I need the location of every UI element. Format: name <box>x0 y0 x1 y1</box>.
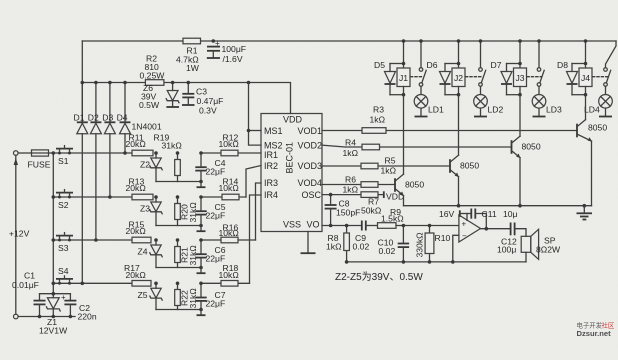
svg-text:/1.6V: /1.6V <box>223 54 243 64</box>
svg-text:20kΩ: 20kΩ <box>126 270 147 280</box>
svg-text:10μ: 10μ <box>503 209 518 219</box>
svg-text:10kΩ: 10kΩ <box>219 139 240 149</box>
terminal bottom left <box>14 314 19 319</box>
svg-text:330kΩ: 330kΩ <box>415 232 425 258</box>
resistor R8 <box>344 226 350 262</box>
transistor Q3 8050 (J3 driver) <box>512 95 521 206</box>
lamp LD1 <box>414 86 428 116</box>
resistor R22 <box>175 283 181 309</box>
relay contact S-J2 <box>466 41 486 86</box>
capacitor C11 <box>471 209 486 229</box>
wire R16 to IR3 <box>256 183 262 240</box>
ground LD1 <box>415 116 428 118</box>
node diode-row junctions <box>123 151 127 155</box>
wire left vertical rail1 to D1 <box>81 41 83 122</box>
node rail1 100uF junction <box>212 39 216 43</box>
node fuse junction <box>52 151 56 155</box>
svg-text:MS1: MS1 <box>264 126 283 136</box>
svg-text:20kΩ: 20kΩ <box>126 226 147 236</box>
svg-text:FUSE: FUSE <box>28 160 51 170</box>
wire emitter bus <box>404 205 592 207</box>
lamp LD4 <box>599 86 613 116</box>
wire J4 bottom <box>572 87 586 95</box>
svg-text:D3: D3 <box>102 113 113 123</box>
capacitor C1 <box>34 294 46 317</box>
svg-text:+: + <box>215 39 220 48</box>
resistor R1 <box>183 38 201 44</box>
svg-text:0.47μF: 0.47μF <box>197 96 224 106</box>
transistor Q4 8050 (J4 driver) <box>577 95 592 206</box>
svg-text:MS2: MS2 <box>264 140 283 150</box>
diode D8 <box>567 64 586 95</box>
resistor R21 <box>175 240 181 268</box>
resistor R10 <box>425 226 434 262</box>
node rail1 branch junctions <box>402 39 406 43</box>
wire J2 bottom <box>445 87 459 95</box>
wire terminal to FUSE <box>18 152 31 154</box>
ground Z6 <box>166 106 179 108</box>
arrow up on +12V feed <box>14 158 18 165</box>
wire VOD1 line <box>322 128 577 134</box>
svg-text:16V: 16V <box>439 209 455 219</box>
wire rail2 diode bus to VDD <box>82 83 290 114</box>
wire audio ground bus <box>347 261 526 263</box>
wire inverting input feedback <box>453 235 459 262</box>
svg-text:OSC: OSC <box>302 190 322 200</box>
zener Z6 <box>166 83 179 107</box>
svg-text:C11: C11 <box>482 209 497 219</box>
svg-text:1kΩ: 1kΩ <box>370 114 386 124</box>
svg-text:C1: C1 <box>24 271 35 281</box>
diode D2 <box>90 83 101 241</box>
capacitor C9 <box>362 221 378 231</box>
switch S1 <box>53 146 132 155</box>
svg-text:R5: R5 <box>385 155 396 165</box>
ground LD3 <box>533 116 546 118</box>
svg-text:0.5W: 0.5W <box>139 100 160 110</box>
capacitor C5 <box>195 197 206 226</box>
svg-text:VO: VO <box>307 220 320 230</box>
diode D7 <box>501 64 520 95</box>
wire R18 to IR4 <box>250 195 262 283</box>
wire VOD4 line <box>322 182 395 188</box>
svg-text:10kΩ: 10kΩ <box>219 228 240 238</box>
svg-text:Dzsur.net: Dzsur.net <box>577 329 612 338</box>
svg-text:1kΩ: 1kΩ <box>343 148 359 158</box>
capacitor C2 electrolytic <box>61 293 76 317</box>
wire left vertical +12V feed <box>15 155 17 314</box>
lamp LD3 <box>532 86 546 116</box>
resistor R13 <box>132 194 153 200</box>
wire J3 bottom <box>507 87 521 95</box>
svg-text:R6: R6 <box>345 175 356 185</box>
svg-text:D1: D1 <box>74 113 85 123</box>
wire J1 bottom <box>390 87 404 95</box>
svg-text:0.02: 0.02 <box>353 242 370 252</box>
svg-text:50kΩ: 50kΩ <box>361 206 382 216</box>
wire op-amp output <box>481 228 511 230</box>
wire row3 divider bottom <box>156 268 201 273</box>
svg-text:D4: D4 <box>117 113 128 123</box>
relay contact S-J1 <box>411 41 427 86</box>
svg-text:LD3: LD3 <box>546 105 562 115</box>
diode D1 <box>77 83 88 284</box>
wire top rail1 +V relay rail <box>82 40 616 42</box>
svg-text:D2: D2 <box>88 113 99 123</box>
ground C3 <box>182 104 195 106</box>
svg-text:+: + <box>462 220 467 229</box>
svg-text:220n: 220n <box>78 312 97 322</box>
svg-text:150pF: 150pF <box>336 208 360 218</box>
ground LD4 <box>599 116 612 118</box>
svg-text:22μF: 22μF <box>206 210 226 220</box>
wire R14 to IR2 <box>246 166 261 198</box>
svg-text:+12V: +12V <box>9 229 30 239</box>
terminal +12V input <box>14 151 19 156</box>
relay J3 branch wire <box>519 41 521 68</box>
resistor R19 <box>175 153 181 182</box>
switch S3 <box>53 233 132 242</box>
resistor R16 <box>201 237 256 243</box>
ground LD2 <box>474 116 487 118</box>
transistor Q2 8050 (J2 driver) <box>450 95 459 206</box>
capacitor C10 <box>398 226 409 262</box>
node row4 junctions <box>154 282 158 286</box>
resistor R11 <box>132 150 153 156</box>
ground row1 <box>197 186 206 188</box>
resistor R12 <box>201 150 261 156</box>
zener Z3 <box>150 197 162 226</box>
svg-text:22μF: 22μF <box>206 298 226 308</box>
relay coil J3 <box>514 68 527 87</box>
svg-text:J2: J2 <box>454 73 463 83</box>
svg-text:BEC-01: BEC-01 <box>285 142 295 174</box>
svg-text:S1: S1 <box>58 156 69 166</box>
relay coil J1 <box>397 68 410 87</box>
relay coil J4 <box>579 68 592 87</box>
ground 100uF <box>207 57 220 59</box>
capacitor C4 <box>195 153 206 182</box>
svg-text:8050: 8050 <box>588 123 607 133</box>
zener Z1 <box>46 294 60 317</box>
resistor R20 <box>175 197 181 226</box>
power tick 16V <box>460 210 471 220</box>
relay coil J2 <box>452 68 465 87</box>
wire MS1 MS2 feed <box>249 83 262 146</box>
svg-text:100μF: 100μF <box>222 44 247 54</box>
wire VOD2 line <box>322 144 512 150</box>
wire VOD3 line <box>322 163 450 169</box>
diode D6 <box>440 64 459 95</box>
svg-text:8Ω2W: 8Ω2W <box>536 245 561 255</box>
wire rail1 right corner to contact S-J4 <box>606 41 617 68</box>
svg-text:0.3V: 0.3V <box>199 106 217 116</box>
node row1 junctions <box>154 151 158 155</box>
diode D3 <box>104 83 115 198</box>
svg-text:VOD2: VOD2 <box>298 140 323 150</box>
svg-text:D6: D6 <box>427 60 438 70</box>
svg-text:D5: D5 <box>374 60 385 70</box>
relay contact S-J3 <box>527 41 544 86</box>
capacitor 100uF electrolytic <box>207 39 220 57</box>
svg-text:R4: R4 <box>345 137 356 147</box>
svg-text:8050: 8050 <box>405 180 424 190</box>
wire OSC line <box>322 192 384 198</box>
resistor R14 <box>201 194 246 200</box>
zener Z2 <box>150 153 162 182</box>
svg-text:8050: 8050 <box>460 161 479 171</box>
capacitor C3 <box>182 83 194 105</box>
svg-text:J4: J4 <box>581 73 590 83</box>
svg-text:Z3: Z3 <box>140 204 150 214</box>
svg-text:+: + <box>61 293 66 302</box>
diode D4 <box>120 83 131 154</box>
wire row1 divider bottom <box>156 182 201 187</box>
transistor Q1 8050 (J1 driver) <box>395 95 404 206</box>
svg-text:VSS: VSS <box>283 220 301 230</box>
node row2 junctions <box>154 195 158 199</box>
svg-text:−: − <box>462 232 467 241</box>
svg-text:Z4: Z4 <box>138 247 148 257</box>
wire MS1 stub <box>249 130 262 132</box>
node bottom line junctions <box>38 315 42 319</box>
svg-text:31kΩ: 31kΩ <box>162 141 183 151</box>
svg-text:8050: 8050 <box>522 142 541 152</box>
svg-text:0.25W: 0.25W <box>140 71 166 81</box>
svg-text:22μF: 22μF <box>206 253 226 263</box>
ground row2 <box>197 230 206 232</box>
svg-text:J1: J1 <box>399 73 408 83</box>
capacitor C6 <box>195 240 206 268</box>
svg-text:LD2: LD2 <box>488 105 504 115</box>
resistor R18 <box>201 281 250 287</box>
wire VO line <box>322 225 362 227</box>
svg-text:1.5kΩ: 1.5kΩ <box>381 214 404 224</box>
svg-text:D8: D8 <box>557 60 568 70</box>
svg-text:1kΩ: 1kΩ <box>343 184 359 194</box>
node rail2 junctions <box>81 81 85 85</box>
relay J2 branch wire <box>458 41 460 68</box>
node bus row junctions <box>52 195 56 199</box>
wire switch feed bus <box>52 153 54 294</box>
node row3 junctions <box>154 238 158 242</box>
ground row4 <box>197 314 206 316</box>
diode D5 <box>385 64 404 95</box>
svg-text:12V1W: 12V1W <box>39 326 68 336</box>
svg-text:1W: 1W <box>186 63 200 73</box>
svg-text:0.02: 0.02 <box>379 246 396 256</box>
svg-text:LD1: LD1 <box>428 105 444 115</box>
svg-text:IR3: IR3 <box>264 178 278 188</box>
ground VSS <box>301 232 316 254</box>
fuse FUSE <box>32 150 54 156</box>
wire bottom-left ground line <box>18 316 75 318</box>
wire row4 divider bottom <box>156 310 201 315</box>
relay contact S-J4 <box>593 68 611 87</box>
svg-text:S3: S3 <box>58 243 69 253</box>
power tick VDD <box>383 191 385 198</box>
switch S4 <box>53 276 132 285</box>
svg-text:S2: S2 <box>58 200 69 210</box>
svg-text:20kΩ: 20kΩ <box>126 139 147 149</box>
svg-text:Z2-Z5为39V、0.5W: Z2-Z5为39V、0.5W <box>335 271 423 283</box>
svg-text:R10: R10 <box>435 233 451 243</box>
op-amp audio amplifier <box>459 215 481 242</box>
svg-text:Z2: Z2 <box>140 160 150 170</box>
switch S2 <box>53 190 132 199</box>
ground row3 <box>197 272 206 274</box>
svg-text:R3: R3 <box>373 105 384 115</box>
op-amp ... IC U1 BEC-01 <box>261 114 322 232</box>
svg-text:VOD1: VOD1 <box>298 126 323 136</box>
svg-text:10kΩ: 10kΩ <box>219 183 240 193</box>
capacitor C12 <box>511 223 526 237</box>
svg-text:LD4: LD4 <box>584 105 600 115</box>
svg-text:VOD3: VOD3 <box>298 161 323 171</box>
resistor R9 <box>378 223 459 229</box>
resistor R17 <box>132 281 151 287</box>
svg-text:Z5: Z5 <box>138 290 148 300</box>
resistor R15 <box>132 237 151 243</box>
svg-text:S4: S4 <box>58 266 69 276</box>
zener Z4 <box>150 240 162 268</box>
capacitor C7 <box>195 283 206 309</box>
lamp LD2 <box>474 86 488 116</box>
svg-text:0.01μF: 0.01μF <box>12 280 39 290</box>
svg-text:1kΩ: 1kΩ <box>381 165 397 175</box>
resistor R2 <box>145 80 164 86</box>
speaker SP <box>521 229 538 262</box>
svg-text:C3: C3 <box>196 87 207 97</box>
svg-text:D7: D7 <box>491 60 502 70</box>
svg-text:22μF: 22μF <box>206 166 226 176</box>
svg-text:J3: J3 <box>516 73 525 83</box>
svg-text:IR1: IR1 <box>264 150 278 160</box>
svg-text:IR2: IR2 <box>264 161 278 171</box>
svg-text:10kΩ: 10kΩ <box>219 270 240 280</box>
wire C1 Z1 C2 top link <box>40 293 71 295</box>
svg-text:IR4: IR4 <box>264 190 278 200</box>
wire row2 divider bottom <box>156 226 201 231</box>
relay J4 branch wire <box>585 41 587 68</box>
svg-text:VOD4: VOD4 <box>298 178 323 188</box>
ground emitter bus <box>577 206 593 220</box>
relay J1 branch wire <box>403 41 405 68</box>
svg-text:20kΩ: 20kΩ <box>126 183 147 193</box>
svg-text:VDD: VDD <box>283 115 303 125</box>
svg-text:100μ: 100μ <box>497 245 516 255</box>
zener Z5 <box>150 283 162 309</box>
svg-text:1N4001: 1N4001 <box>132 122 162 132</box>
capacitor C8 <box>325 195 337 226</box>
svg-text:1kΩ: 1kΩ <box>326 242 342 252</box>
